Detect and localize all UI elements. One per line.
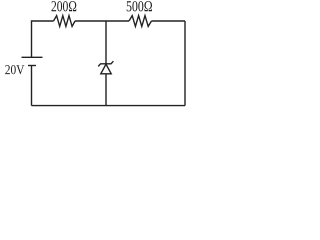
wire middle vertical lower (zener anode to bottom wire) (105, 74, 107, 106)
wire top-right segment from R2 to right corner (152, 20, 186, 22)
label 20V for battery V1 (5, 65, 24, 74)
wire middle vertical upper (top node to zener cathode) (105, 21, 107, 64)
label 500Ω for resistor R2 (127, 1, 152, 11)
wire right vertical (184, 21, 186, 106)
wire top-left segment from battery positive up and right to R1 (32, 21, 54, 57)
zener diode D1 triangle (anode, pointing up) (101, 64, 111, 74)
wire top middle segment between R1 and R2 (75, 20, 129, 22)
resistor R2 zigzag (129, 16, 152, 27)
wire left lower vertical from battery negative down (31, 66, 33, 106)
resistor R1 zigzag (54, 16, 76, 27)
label 200Ω for resistor R1 (52, 1, 77, 11)
wire bottom (32, 105, 186, 107)
battery V1 long plate (positive) (22, 56, 43, 58)
battery V1 short plate (negative) (28, 65, 36, 67)
zener diode D1 cathode bar with bent ends (98, 61, 113, 66)
